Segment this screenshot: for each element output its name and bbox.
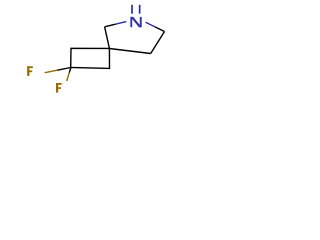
bond C4-spiro [109,49,150,54]
atom label N diagonal [131,17,142,27]
atom label F2 mid bar [56,87,61,89]
atom label F1 mid bar [27,71,32,73]
bond F2 black half [69,68,71,73]
bond N-C5 blue half [146,22,155,27]
atom label N left stem [130,17,132,27]
atom label H stroke 1 [131,5,133,14]
bond C7-N black half [105,24,116,27]
bond C5-C4 [151,32,165,54]
atom label H stroke 2 [139,5,141,14]
bond spiro-C7 [105,27,110,49]
bond N-C5 black half [155,27,165,32]
bond F1 gold half [45,70,58,73]
bond F2 gold half [67,73,70,81]
atom label F1 stem [27,66,29,76]
atom label F2 top bar [56,83,62,85]
bond C7-N blue half [116,22,127,25]
atom label N right stem [140,17,142,27]
atom label F2 stem [56,83,58,93]
bond F1 black half [57,68,70,71]
cyclobutane ring [71,48,110,68]
atom label F1 top bar [27,66,33,68]
